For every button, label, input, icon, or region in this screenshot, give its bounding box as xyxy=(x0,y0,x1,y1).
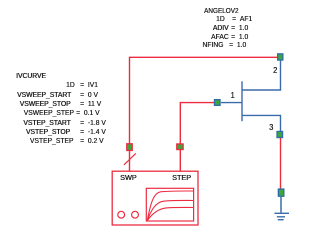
label IVCURVE title xyxy=(16,72,46,80)
pin number 2 xyxy=(273,67,277,75)
STEP port label xyxy=(172,174,191,182)
SWP port label xyxy=(120,174,137,182)
ground pin square xyxy=(278,189,284,196)
terminal circle left xyxy=(118,211,125,218)
IV curve trace bottom xyxy=(147,207,193,220)
value VSTEP_START = -1.8 V xyxy=(80,119,106,127)
transistor U1 ANGELOV2 FET symbol xyxy=(221,61,281,132)
value NFING = 1.0 xyxy=(229,41,246,49)
label VSWEEP_STOP xyxy=(20,100,71,108)
value ID = IV1 xyxy=(80,81,98,89)
value ADIV = 1.0 xyxy=(231,24,248,32)
value AFAC = 1.0 xyxy=(231,33,248,41)
IV curve trace middle xyxy=(147,200,193,220)
label ID name xyxy=(66,81,75,89)
IV curve graph inner frame xyxy=(146,188,193,221)
STEP pin square xyxy=(177,144,183,150)
label NFING xyxy=(202,41,223,49)
wire from SWP port up and over to drain node xyxy=(130,57,278,171)
ground xyxy=(275,197,290,220)
label AFAC xyxy=(211,33,229,41)
wire break slash on SWP wire xyxy=(124,153,136,165)
pin number 3 xyxy=(269,124,273,132)
value VSTEP_STEP = 0.2 V xyxy=(80,137,103,145)
wire from source pin 3 down to ground pin xyxy=(280,138,282,189)
label VSWEEP_START xyxy=(17,91,71,99)
value VSWEEP_START = 0 V xyxy=(80,91,98,99)
label ANGELOV2 title xyxy=(204,7,238,15)
value ID = AF1 xyxy=(232,15,252,23)
label VSTEP_START xyxy=(23,119,70,127)
wire from STEP port up and over to gate node xyxy=(180,103,214,172)
value VSWEEP_STEP = 0.1 V xyxy=(76,109,99,117)
label ID name of FET xyxy=(216,15,225,23)
label VSTEP_STOP xyxy=(26,128,70,136)
IVCurve tester box xyxy=(112,171,198,225)
label VSWEEP_STEP xyxy=(24,109,74,117)
pin number 1 xyxy=(230,92,234,100)
label VSTEP_STEP xyxy=(30,137,74,145)
SWP pin square xyxy=(127,144,133,151)
gate pin 1 square xyxy=(214,100,220,106)
IV curve trace top xyxy=(147,191,193,221)
value VSTEP_STOP = -1.4 V xyxy=(80,128,106,136)
value VSWEEP_STOP = 11 V xyxy=(80,100,101,108)
drain pin 2 square xyxy=(278,54,283,60)
label ADIV xyxy=(212,24,228,32)
terminal circle right xyxy=(132,211,139,218)
source pin 3 square xyxy=(277,131,283,137)
